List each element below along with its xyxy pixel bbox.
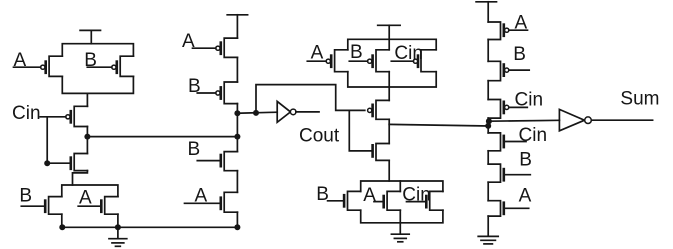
svg-text:A: A [182, 31, 195, 52]
svg-text:B: B [19, 186, 32, 207]
svg-text:A: A [515, 12, 528, 33]
svg-text:B: B [513, 44, 526, 65]
svg-text:A: A [311, 43, 324, 64]
svg-text:A: A [519, 185, 532, 206]
svg-text:A: A [363, 185, 376, 206]
svg-text:B: B [188, 139, 201, 160]
svg-text:B: B [350, 42, 363, 63]
svg-text:Cin: Cin [12, 103, 41, 124]
svg-text:B: B [316, 184, 329, 205]
svg-text:A: A [14, 50, 27, 71]
svg-text:Cin: Cin [519, 125, 548, 146]
svg-text:B: B [84, 50, 97, 71]
svg-text:A: A [79, 188, 92, 209]
svg-text:Sum: Sum [620, 89, 659, 110]
svg-text:A: A [195, 186, 208, 207]
svg-text:Cin: Cin [402, 185, 431, 206]
svg-text:Cin: Cin [394, 43, 423, 64]
svg-text:Cin: Cin [515, 90, 544, 111]
svg-text:Cout: Cout [299, 126, 340, 147]
svg-text:B: B [519, 149, 532, 170]
svg-text:B: B [188, 76, 201, 97]
